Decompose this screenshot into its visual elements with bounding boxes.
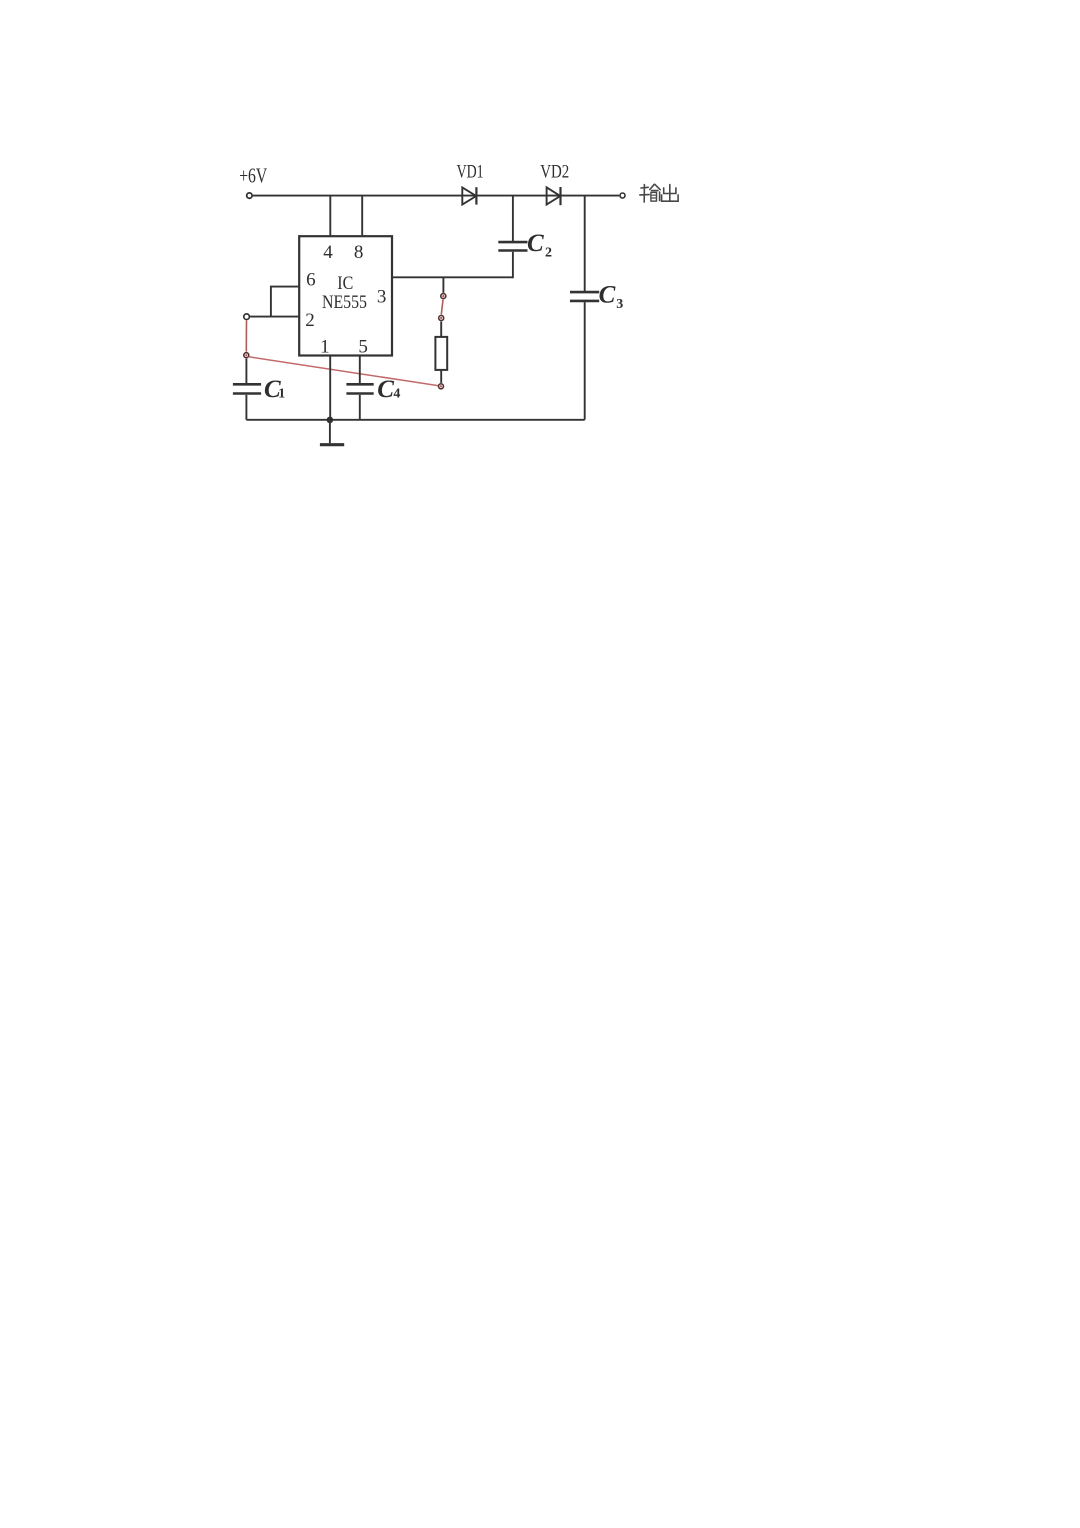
node upper red terminal (441, 294, 446, 299)
C2 value label (527, 230, 552, 260)
capacitor C2 (498, 196, 527, 279)
wire red link between terminals (441, 300, 443, 315)
wire red link pin2 terminal down (245, 320, 247, 351)
svg-text:4: 4 (393, 387, 400, 402)
wire pin 6 loop (271, 287, 299, 317)
svg-text:2: 2 (545, 245, 552, 260)
diode VD1 (462, 187, 476, 204)
svg-text:C: C (527, 230, 544, 257)
svg-text:C: C (599, 281, 616, 308)
svg-text:NE555: NE555 (322, 292, 367, 313)
svg-text:5: 5 (358, 336, 368, 357)
C4 value label (377, 376, 400, 403)
wire pin 1 lead down (329, 356, 331, 420)
wire bottom ground rail (246, 419, 584, 421)
svg-text:2: 2 (305, 310, 315, 331)
VD1 label (457, 161, 484, 182)
C1 value label (264, 376, 285, 403)
wire red diagonal link (249, 357, 438, 386)
svg-text:1: 1 (278, 387, 285, 402)
svg-text:C: C (377, 376, 394, 403)
node output terminal (620, 193, 625, 198)
diode VD2 (547, 187, 561, 205)
op-amp U1 IC NE555 box (299, 236, 392, 357)
wire pin 4 lead to top rail (329, 196, 331, 237)
wire pin 2 lead (250, 316, 299, 318)
wire pin 8 lead to top rail (361, 196, 363, 237)
node red junction above C1 (244, 353, 249, 358)
wire pin 5 lead down (359, 356, 361, 384)
ground (320, 420, 344, 445)
svg-text:3: 3 (616, 297, 623, 312)
svg-text:VD1: VD1 (457, 161, 484, 182)
svg-text:+6V: +6V (239, 164, 267, 188)
capacitor C3 (570, 196, 599, 420)
VD2 label (540, 162, 569, 183)
node +6V input terminal (247, 193, 252, 198)
svg-text:1: 1 (320, 336, 330, 357)
svg-text:4: 4 (323, 242, 333, 263)
node junction pin1 / rail (327, 417, 334, 424)
capacitor C1 (233, 359, 261, 420)
node pin 2 terminal (244, 314, 250, 320)
+6V label (239, 164, 267, 188)
wire stub from pin3 line down (442, 277, 444, 293)
svg-text:3: 3 (377, 287, 387, 308)
wire terminal to resistor top (440, 322, 442, 338)
node resistor bottom red terminal (439, 384, 444, 389)
svg-text:6: 6 (306, 269, 316, 290)
输出 (output) label, hand-drawn glyphs (640, 184, 678, 202)
C3 value label (599, 281, 624, 312)
capacitor C4 (346, 384, 373, 420)
wire top supply rail (253, 195, 619, 197)
node lower red terminal (439, 316, 444, 321)
wire pin 3 output line (392, 276, 513, 278)
wire resistor bottom lead (440, 370, 442, 383)
svg-text:8: 8 (354, 242, 364, 263)
svg-text:VD2: VD2 (540, 162, 569, 183)
resistor R1 (435, 337, 447, 370)
